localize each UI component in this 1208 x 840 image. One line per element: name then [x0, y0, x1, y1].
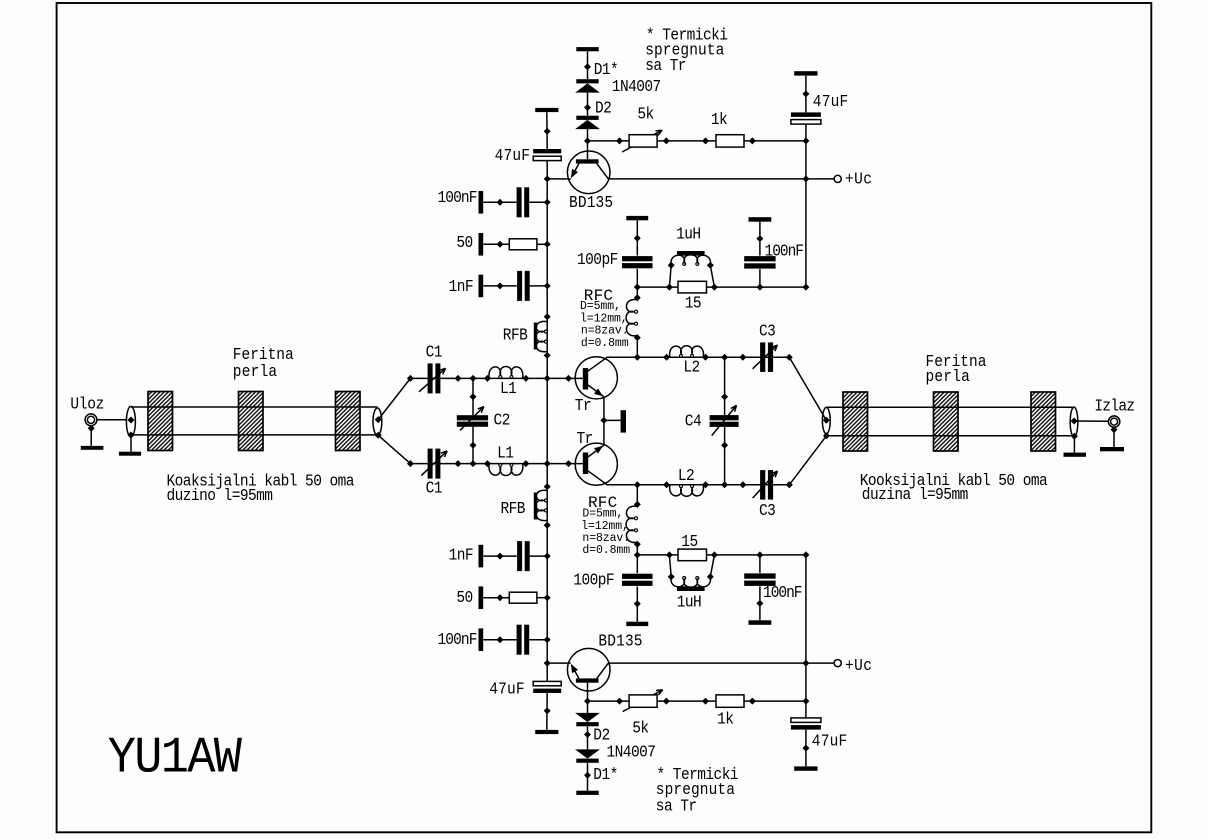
svg-text:100pF: 100pF — [577, 250, 618, 269]
node — [522, 375, 529, 382]
wire — [537, 597, 547, 599]
node — [497, 282, 504, 289]
wire — [546, 161, 548, 421]
node — [616, 137, 623, 144]
cable end ellipse (right) — [1070, 407, 1078, 437]
node — [739, 354, 746, 361]
wire — [710, 555, 714, 577]
node — [663, 698, 670, 705]
wire — [483, 639, 516, 641]
connector Izlaz inner — [1111, 418, 1118, 425]
bottom half network (mirrored) — [407, 421, 841, 795]
node — [634, 541, 641, 548]
inductor 1uH coil — [671, 577, 711, 587]
node — [666, 551, 673, 558]
node — [484, 460, 491, 467]
capacitor 100nF (left column) — [517, 187, 522, 217]
wire — [805, 124, 807, 287]
svg-text:1N4007: 1N4007 — [607, 743, 656, 762]
ferrite bead right 1 — [843, 392, 868, 451]
resistor 15 — [678, 549, 707, 561]
wire (emitter drop) — [603, 422, 605, 446]
capacitor C4 plate (top) — [710, 422, 739, 427]
node — [544, 460, 551, 467]
svg-text:15: 15 — [685, 294, 702, 313]
capacitor C3 (trimmer) — [760, 342, 765, 372]
ferrite bead left 2 — [239, 392, 264, 451]
wire (L1 line) — [410, 463, 582, 465]
wire — [483, 285, 517, 287]
wire (L1 line) — [410, 377, 582, 379]
capacitor 47uF top-right (electrolytic) — [791, 112, 821, 117]
node — [544, 282, 551, 289]
node — [749, 698, 756, 705]
node — [786, 481, 793, 488]
resistor 50 — [509, 592, 537, 603]
trimmer arrow C2 — [460, 407, 484, 431]
node — [544, 636, 551, 643]
node — [88, 425, 95, 432]
node — [128, 432, 135, 439]
trimmer arrow C3 bottom — [753, 471, 778, 498]
wire — [587, 51, 589, 79]
terminal bar (top of 47uF right) — [794, 766, 817, 770]
node — [634, 235, 641, 242]
wire (to C1 top) — [378, 378, 410, 419]
svg-text:L2: L2 — [683, 358, 700, 377]
inductor 1uH core bar — [677, 586, 705, 591]
connector Izlaz outer — [1108, 416, 1119, 427]
svg-text:1k: 1k — [717, 710, 734, 729]
capacitor C3 (trimmer) — [760, 470, 765, 500]
coax braid line top-right — [826, 406, 1074, 408]
wire — [636, 587, 638, 622]
transistor Tr base bar — [583, 453, 588, 475]
transistor BD135 base bar — [576, 678, 599, 682]
svg-text:Tr: Tr — [575, 396, 591, 415]
wire (to C1 bottom) — [378, 435, 410, 463]
wire — [587, 726, 589, 749]
svg-text:47uF: 47uF — [813, 92, 849, 111]
svg-text:C1: C1 — [426, 343, 443, 362]
node — [1071, 418, 1078, 425]
svg-text:RFB: RFB — [503, 326, 528, 345]
svg-text:1nF: 1nF — [449, 546, 474, 565]
node — [802, 698, 809, 705]
wire (decoupling rail) — [637, 554, 806, 556]
capacitor C1 (trimmer) — [428, 363, 433, 393]
node — [407, 460, 414, 467]
ferrite bead left 3 — [336, 392, 361, 451]
resistor 5k (trimmer) — [629, 135, 657, 147]
node — [702, 137, 709, 144]
svg-text:C1: C1 — [426, 479, 443, 498]
svg-text:l=12mm,: l=12mm, — [581, 520, 629, 533]
transistor BD135 base bar — [576, 159, 599, 163]
node — [711, 284, 718, 291]
node — [584, 63, 591, 70]
choke RFB coil — [536, 321, 547, 351]
node — [668, 262, 675, 269]
node — [544, 128, 551, 135]
svg-text:C4: C4 — [685, 412, 702, 431]
inductor L1 coil — [489, 367, 523, 379]
node — [634, 334, 641, 341]
resistor 1k — [716, 695, 744, 707]
wire (collector line) — [607, 484, 790, 486]
node — [544, 241, 551, 248]
node — [802, 137, 809, 144]
node — [663, 137, 670, 144]
svg-text:Tr: Tr — [577, 429, 593, 448]
wire (emitter side) — [547, 178, 571, 180]
trimmer arrow C1 bottom — [421, 451, 447, 476]
svg-text:5k: 5k — [632, 719, 649, 738]
node — [544, 594, 551, 601]
svg-text:BD135: BD135 — [598, 632, 642, 651]
node — [749, 137, 756, 144]
svg-text:47uF: 47uF — [489, 680, 525, 699]
trimmer arrow C4 — [712, 405, 737, 435]
node — [634, 501, 641, 508]
trimmer arrow C1 top — [419, 368, 446, 392]
terminal bar 100nF mid — [749, 620, 772, 625]
wire (cable to Izlaz) — [1074, 420, 1108, 422]
node — [668, 573, 675, 580]
node — [544, 175, 551, 182]
svg-text:sa Tr: sa Tr — [645, 56, 686, 75]
wire — [636, 220, 638, 255]
svg-text:47uF: 47uF — [495, 146, 531, 165]
resistor 5k (trimmer) — [629, 695, 657, 707]
node — [565, 375, 572, 382]
node — [470, 442, 477, 449]
coax braid line bottom-right — [826, 435, 1074, 437]
connector Uloz inner — [87, 416, 94, 423]
svg-text:D=5mm,: D=5mm, — [582, 507, 623, 520]
svg-text:1uH: 1uH — [676, 225, 701, 244]
wire — [483, 243, 509, 245]
wire — [483, 201, 516, 203]
node — [702, 698, 709, 705]
node — [544, 199, 551, 206]
svg-text:C2: C2 — [494, 411, 511, 430]
terminal bar 100nF mid — [749, 217, 772, 222]
terminal bar (top of D1) — [576, 47, 598, 51]
svg-text:100pF: 100pF — [573, 571, 614, 590]
wire — [759, 269, 761, 287]
svg-text:1N4007: 1N4007 — [612, 77, 661, 96]
node — [484, 375, 491, 382]
svg-text:duzina l=95mm: duzina l=95mm — [862, 485, 968, 504]
diode D2 1N4007 — [576, 722, 598, 726]
transistor Tr collector — [588, 471, 607, 485]
node — [544, 553, 551, 560]
terminal bar 50 stub — [479, 233, 484, 256]
wire — [805, 555, 807, 718]
trimmer arrow 5k bottom — [623, 690, 663, 712]
wire — [530, 555, 548, 557]
capacitor 100nF (left column) — [517, 625, 522, 655]
terminal bar (emitter bypass) — [621, 410, 626, 432]
choke RFC coil — [626, 506, 637, 542]
node — [584, 137, 591, 144]
node — [634, 354, 641, 361]
choke RFB core bar — [534, 493, 537, 520]
node (emitter common) — [600, 417, 607, 424]
node — [707, 573, 714, 580]
node — [584, 104, 591, 111]
svg-text:D2: D2 — [595, 99, 612, 118]
wire — [724, 427, 726, 485]
transistor BD135 body — [567, 648, 610, 691]
svg-text:50: 50 — [456, 233, 473, 252]
transistor BD135 collector — [597, 663, 609, 678]
wire — [636, 269, 638, 287]
wire (emitter stub) — [604, 419, 621, 421]
wire (decoupling rail) — [637, 286, 806, 288]
node — [584, 731, 591, 738]
svg-text:D1*: D1* — [593, 765, 617, 784]
wire — [587, 128, 589, 159]
inductor L1 coil — [489, 464, 523, 476]
cable end ellipse (right-mid) — [822, 407, 830, 433]
choke RFB coil — [536, 490, 547, 520]
node — [721, 393, 728, 400]
node — [497, 199, 504, 206]
svg-text:1k: 1k — [711, 110, 728, 129]
svg-text:n=8zav.: n=8zav. — [581, 325, 629, 338]
ground bar (left shield) — [119, 452, 141, 456]
terminal bar (top of D1) — [576, 791, 598, 795]
wire (bias line) — [588, 140, 806, 142]
node — [455, 460, 462, 467]
resistor 1k — [716, 135, 744, 147]
cable end ellipse (left-mid) — [373, 408, 382, 435]
inductor L2 coil — [670, 346, 704, 357]
node — [802, 745, 809, 752]
capacitor 100nF mid — [744, 256, 775, 261]
transistor BD135 emitter — [571, 164, 579, 178]
node — [497, 553, 504, 560]
node — [663, 354, 670, 361]
transistor BD135 collector — [597, 164, 609, 179]
coax braid line bottom-left — [131, 434, 378, 436]
wire — [483, 597, 509, 599]
svg-text:100nF: 100nF — [438, 630, 478, 649]
ground bar (right shield) — [1064, 453, 1087, 457]
diode D2 1N4007 — [576, 116, 598, 120]
node — [756, 551, 763, 558]
wire (+Uc stub) — [806, 662, 834, 664]
wire — [483, 555, 517, 557]
node — [707, 262, 714, 269]
diode D1 1N4007 — [576, 759, 598, 763]
node — [1071, 433, 1078, 440]
node — [544, 483, 551, 490]
svg-text:100nF: 100nF — [763, 583, 802, 602]
svg-text:L1: L1 — [500, 379, 517, 398]
svg-text:15: 15 — [681, 532, 698, 551]
capacitor 47uF top-left (electrolytic) — [533, 149, 561, 153]
node — [128, 417, 135, 424]
transistor Tr emitter — [588, 446, 604, 458]
wire — [546, 421, 548, 681]
terminal +Uc circle — [834, 175, 841, 182]
wire — [529, 639, 547, 641]
inductor 1uH core bar — [677, 251, 705, 256]
node — [663, 481, 670, 488]
svg-text:47uF: 47uF — [812, 732, 848, 751]
wire (from C3 top) — [789, 357, 826, 420]
capacitor C1 (trimmer) — [428, 449, 433, 479]
transistor Tr base bar — [583, 368, 588, 390]
capacitor 1nF — [517, 271, 522, 301]
node — [375, 432, 382, 439]
node — [702, 354, 709, 361]
terminal bar 100nF stub — [479, 628, 484, 651]
wire (collector to +Uc) — [608, 178, 806, 180]
wire (+Uc stub) — [806, 178, 834, 180]
node — [565, 460, 572, 467]
svg-text:L1: L1 — [497, 444, 514, 463]
svg-text:Izlaz: Izlaz — [1094, 397, 1134, 416]
svg-text:50: 50 — [456, 588, 473, 607]
terminal bar 1nF stub — [479, 545, 484, 568]
wire — [805, 730, 807, 767]
wire (emitter drop) — [603, 396, 605, 420]
node — [756, 235, 763, 242]
node — [497, 241, 504, 248]
capacitor 47uF top-right (electrolytic) — [791, 725, 821, 730]
capacitor C4 plate (top) — [710, 415, 739, 420]
ferrite bead right 2 — [934, 392, 959, 451]
wire — [636, 287, 638, 300]
wire — [587, 93, 589, 116]
inductor L2 coil — [670, 485, 704, 496]
wire — [805, 76, 807, 113]
node — [666, 284, 673, 291]
node — [375, 416, 382, 423]
terminal bar 100pF — [626, 216, 648, 220]
terminal +Uc circle — [834, 660, 841, 667]
wire — [636, 542, 638, 555]
node — [702, 481, 709, 488]
ground bar (Izlaz) — [1100, 447, 1124, 451]
node — [497, 594, 504, 601]
terminal bar 100nF stub — [479, 191, 484, 214]
wire — [1113, 430, 1115, 447]
node — [823, 432, 830, 439]
cable end ellipse (left) — [126, 406, 135, 436]
node — [544, 375, 551, 382]
svg-text:duzino l=95mm: duzino l=95mm — [167, 486, 273, 505]
node — [455, 375, 462, 382]
node — [739, 481, 746, 488]
wire (collector to +Uc) — [608, 662, 806, 664]
wire — [759, 586, 761, 620]
node — [823, 417, 830, 424]
choke RFC coil — [626, 300, 637, 336]
wire — [710, 265, 714, 287]
wire — [90, 428, 92, 446]
node — [711, 551, 718, 558]
node — [470, 393, 477, 400]
svg-text:L2: L2 — [678, 466, 695, 485]
node — [616, 698, 623, 705]
svg-text:1nF: 1nF — [449, 277, 474, 296]
node — [522, 460, 529, 467]
node — [802, 90, 809, 97]
svg-text:1uH: 1uH — [677, 593, 702, 612]
transistor Tr emitter — [588, 385, 604, 397]
svg-text:Uloz: Uloz — [70, 395, 104, 414]
wire — [546, 693, 548, 730]
capacitor C2 plate (top) — [457, 422, 488, 427]
node — [802, 660, 809, 667]
node — [802, 175, 809, 182]
trimmer arrow C3 top — [753, 345, 778, 369]
node — [721, 354, 728, 361]
svg-text:+Uc: +Uc — [845, 656, 872, 675]
wire (shield ground right) — [1073, 436, 1075, 452]
capacitor 47uF top-left (electrolytic) — [533, 689, 561, 693]
node — [544, 313, 551, 320]
terminal bar (top of 47uF feed) — [535, 108, 558, 112]
node — [544, 352, 551, 359]
transistor Tr body — [575, 443, 617, 485]
transistor Tr collector — [588, 357, 607, 371]
choke RFB core bar — [534, 323, 537, 350]
wire — [546, 112, 548, 149]
capacitor 100nF mid — [744, 581, 775, 586]
wire — [472, 427, 474, 464]
capacitor C2 plate (top) — [457, 415, 488, 420]
wire — [759, 222, 761, 256]
node — [634, 481, 641, 488]
capacitor 100pF — [622, 581, 653, 586]
node — [1111, 426, 1118, 433]
svg-text:perla: perla — [233, 362, 278, 381]
node — [544, 522, 551, 529]
wire — [636, 485, 638, 507]
svg-text:100nF: 100nF — [438, 188, 478, 207]
wire — [759, 555, 761, 573]
node — [756, 600, 763, 607]
svg-text:d=0.8mm: d=0.8mm — [582, 544, 630, 557]
svg-text:l=12mm,: l=12mm, — [580, 312, 628, 325]
wire — [537, 243, 547, 245]
svg-text:BD135: BD135 — [569, 193, 613, 212]
wire — [669, 265, 671, 287]
node — [634, 284, 641, 291]
coax braid line top-left — [131, 406, 378, 408]
node — [544, 660, 551, 667]
wire (Uloz to cable) — [97, 419, 127, 421]
node — [497, 636, 504, 643]
wire — [529, 201, 547, 203]
wire — [587, 763, 589, 791]
node — [407, 375, 414, 382]
wire — [669, 555, 671, 577]
node — [470, 460, 477, 467]
svg-text:C3: C3 — [759, 501, 776, 520]
svg-text:D=5mm,: D=5mm, — [580, 300, 621, 313]
node — [584, 698, 591, 705]
wire — [587, 683, 589, 714]
capacitor 100pF — [622, 256, 653, 261]
svg-text:YU1AW: YU1AW — [108, 729, 243, 787]
